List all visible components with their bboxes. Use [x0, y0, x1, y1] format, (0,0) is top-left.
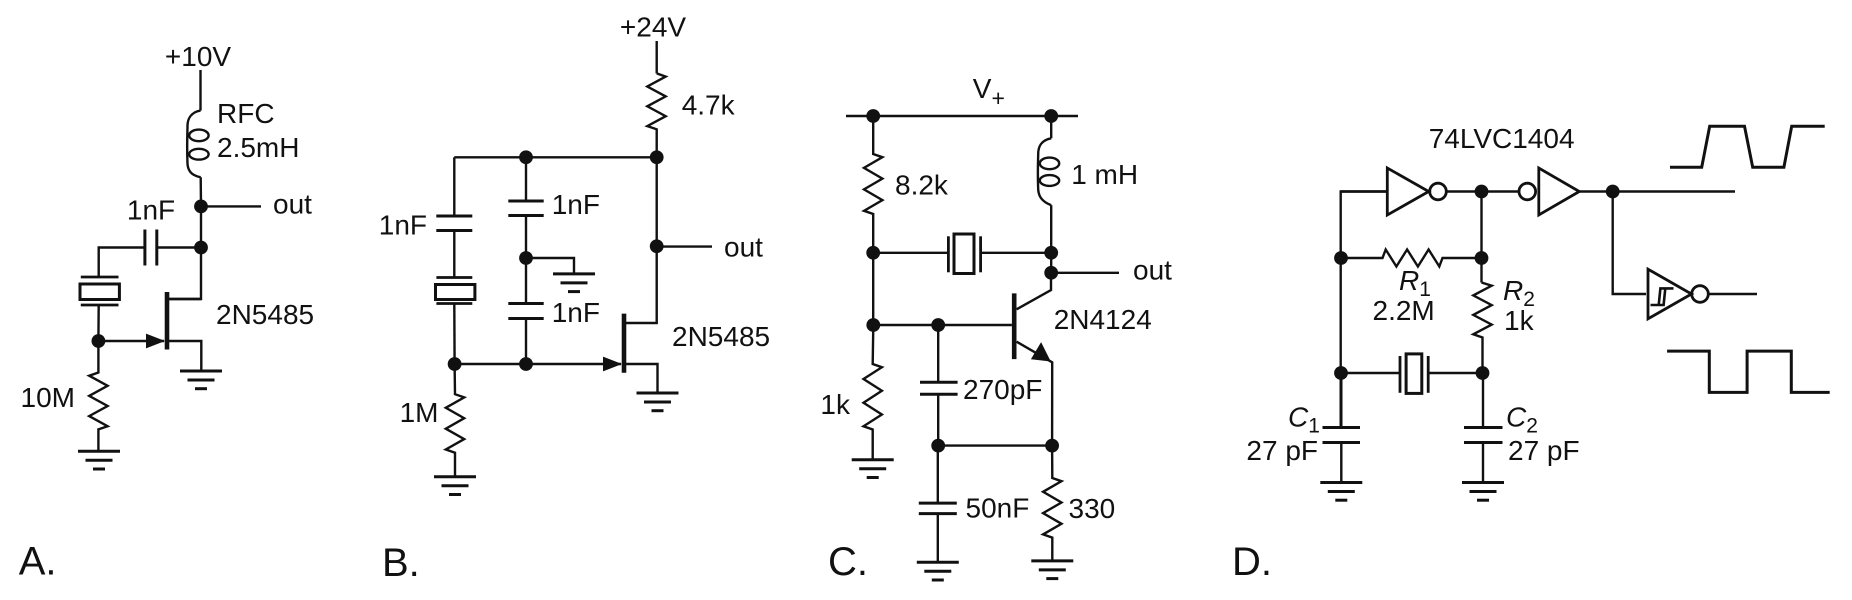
resistor R1 2.2M: [1341, 250, 1482, 267]
crystal X1 (D): [1400, 354, 1428, 394]
svg-text:2N4124: 2N4124: [1054, 304, 1152, 335]
wire base: [873, 324, 1012, 326]
node gate junction (dot): [92, 334, 106, 348]
wire cap to mid node: [525, 216, 527, 259]
gate arrow (B): [603, 357, 622, 372]
svg-text:C.: C.: [828, 540, 868, 584]
node lower-left (dot): [931, 439, 945, 453]
wire out stub: [201, 205, 261, 207]
schmitt inverter U1c triangle: [1648, 269, 1692, 319]
svg-text:2N5485: 2N5485: [672, 321, 770, 352]
wire drain stub: [169, 298, 201, 300]
inverter U1a triangle: [1387, 168, 1428, 215]
svg-text:out: out: [1133, 255, 1172, 286]
ground (B 1M): [434, 477, 476, 495]
node mid gates (dot): [1475, 185, 1489, 199]
wire rail to coil: [1050, 116, 1052, 138]
wire feedback left vertical: [1341, 192, 1388, 428]
wire 270pF to lower node: [937, 394, 939, 445]
wire cap right plate to junction: [157, 246, 201, 248]
wire mid node down to cap2: [525, 258, 527, 304]
ground (C 330): [1031, 561, 1073, 579]
svg-text:A.: A.: [19, 540, 57, 584]
svg-text:27 pF: 27 pF: [1246, 435, 1318, 466]
wire inverter1 input: [1341, 190, 1388, 192]
wire C2 top lead: [1482, 373, 1484, 428]
wire crystal left lead (D): [1341, 372, 1399, 374]
wire junction down to drain corner: [169, 248, 201, 300]
node mid (dot): [519, 251, 533, 265]
gate arrow (A): [146, 334, 165, 349]
svg-text:+10V: +10V: [165, 41, 231, 72]
ground (D C1): [1320, 483, 1362, 501]
node out (C dot): [1044, 266, 1058, 280]
svg-text:8.2k: 8.2k: [895, 170, 949, 201]
wire cap left plate to crystal: [99, 248, 145, 278]
svg-text:1 mH: 1 mH: [1071, 159, 1138, 190]
svg-text:B.: B.: [382, 541, 420, 585]
capacitor 50nF: [919, 503, 957, 513]
capacitor C1 27pF: [1323, 428, 1361, 443]
schmitt hysteresis glyph: [1651, 288, 1674, 305]
wire source stub to ground: [169, 341, 201, 371]
wire mid branch top: [525, 157, 527, 201]
resistor 10M: [89, 341, 107, 451]
wire collector: [1017, 273, 1051, 310]
node R1-right (dot): [1475, 251, 1489, 265]
transistor Q2 2N5485 channel bar: [622, 314, 627, 373]
waveform sine-ish trapezoid (upper): [1670, 126, 1825, 167]
inverter U1b triangle: [1539, 168, 1580, 215]
svg-text:1nF: 1nF: [379, 210, 427, 241]
node crystal-right (D dot): [1476, 366, 1490, 380]
ground (C 1k): [852, 460, 894, 478]
inverter U1b bubble (input): [1519, 183, 1536, 200]
ground (A source): [180, 371, 222, 389]
emitter arrow: [1031, 342, 1051, 361]
node crystal-right (dot): [1044, 246, 1058, 260]
resistor 8.2k: [864, 116, 882, 253]
svg-text:270pF: 270pF: [963, 374, 1042, 405]
wire +10V supply lead: [199, 70, 201, 111]
node lower-right (dot): [1045, 439, 1059, 453]
wire crystal to gate row: [453, 304, 456, 365]
wire 50nF to ground: [937, 514, 939, 563]
crystal X1 (B): [436, 278, 475, 304]
ground (C 50nF): [917, 562, 959, 580]
wire coil to crystal node: [1050, 205, 1052, 253]
wire lower row: [938, 444, 1052, 446]
node out (B dot): [650, 239, 664, 253]
wire cap to crystal (B): [453, 231, 455, 278]
svg-text:RFC: RFC: [217, 98, 275, 129]
node crystal-left (D dot): [1334, 366, 1348, 380]
capacitor C2 27pF: [1464, 428, 1503, 443]
wire out node down to cap junction: [200, 206, 202, 247]
node cap junction (dot): [194, 241, 208, 255]
crystal X1 (C): [948, 234, 980, 274]
wire to 50nF: [937, 446, 939, 504]
wire top rail (B): [454, 156, 656, 158]
svg-text:4.7k: 4.7k: [682, 90, 736, 121]
capacitor 1nF (B mid upper): [508, 201, 543, 216]
schmitt bubble: [1692, 286, 1709, 303]
capacitor 1nF (B mid lower): [508, 304, 543, 319]
node rail-left (dot): [866, 109, 880, 123]
inverter U1a bubble: [1430, 183, 1447, 200]
wire source stub to ground: [626, 364, 658, 393]
capacitor 270pF: [920, 382, 958, 394]
svg-text:1nF: 1nF: [127, 195, 175, 226]
wire C1 to ground: [1340, 443, 1342, 483]
wire inverter2 output: [1579, 190, 1735, 192]
wire mid branch to 270pF: [937, 325, 939, 381]
resistor 1k (C): [864, 325, 882, 460]
svg-text:out: out: [724, 231, 763, 262]
svg-text:1k: 1k: [1504, 305, 1535, 336]
resistor 330: [1043, 446, 1061, 561]
wire crystal to gate node: [97, 305, 100, 341]
ground (B source): [637, 393, 679, 411]
label RFC 2.5mH: [217, 98, 299, 163]
wire emitter: [1017, 342, 1053, 446]
node output (dot): [1606, 185, 1620, 199]
ground (D C2): [1462, 483, 1504, 501]
wire C1 top lead: [1340, 373, 1342, 428]
svg-text:2N5485: 2N5485: [216, 299, 314, 330]
wire left branch down to cap: [453, 157, 455, 216]
ground (B mid): [553, 274, 595, 292]
transistor Q1 2N5485 channel bar: [165, 292, 170, 350]
node rail-right (dot): [1044, 109, 1058, 123]
svg-text:+24V: +24V: [620, 12, 686, 43]
wire cap2 to gate row: [525, 319, 527, 365]
node rail-right (dot): [650, 150, 664, 164]
wire out stub (C): [1051, 272, 1119, 274]
svg-text:10M: 10M: [21, 382, 75, 413]
svg-text:50nF: 50nF: [966, 493, 1030, 524]
node crystal-left (dot): [866, 246, 880, 260]
node base-mid (dot): [931, 318, 945, 332]
waveform square (lower): [1667, 351, 1830, 392]
resistor 4.7k: [647, 73, 665, 157]
svg-text:74LVC1404: 74LVC1404: [1429, 123, 1575, 154]
wire +24V supply lead: [656, 41, 658, 73]
ground (10M): [78, 451, 120, 469]
wire gate: [98, 340, 164, 342]
wire crystal right lead: [982, 252, 1051, 254]
node gate-mid (dot): [519, 357, 533, 371]
svg-text:D.: D.: [1232, 540, 1272, 584]
svg-text:out: out: [273, 189, 312, 220]
inductor RFC 2.5mH coil: [187, 111, 208, 178]
wire schmitt output: [1709, 293, 1758, 295]
svg-text:1nF: 1nF: [552, 189, 600, 220]
node base-left (dot): [866, 318, 880, 332]
wire V+ top rail: [846, 115, 1078, 117]
svg-text:2.2M: 2.2M: [1373, 295, 1435, 326]
wire out stub (B): [657, 245, 712, 247]
wire crystal node to out node: [1050, 253, 1052, 273]
svg-text:330: 330: [1069, 493, 1116, 524]
wire left branch to 1k: [872, 253, 874, 325]
wire crystal left lead: [873, 252, 947, 254]
node rail-mid (dot): [519, 150, 533, 164]
wire coil to out node: [199, 177, 202, 206]
resistor R2 1k: [1473, 283, 1491, 374]
node gate-left (dot): [448, 357, 462, 371]
node out (dot): [194, 200, 208, 214]
wire C2 to ground: [1482, 443, 1484, 483]
capacitor 1nF (A) plates: [145, 230, 157, 266]
inductor 1 mH coil: [1038, 138, 1059, 205]
svg-text:1M: 1M: [400, 397, 439, 428]
capacitor 1nF (B left): [436, 216, 472, 231]
wire gate row: [455, 363, 621, 365]
wire mid node to ground stub: [526, 258, 574, 274]
node R1-left (dot): [1334, 251, 1348, 265]
wire to schmitt input: [1613, 192, 1646, 295]
svg-text:1nF: 1nF: [552, 297, 600, 328]
svg-text:2.5mH: 2.5mH: [217, 132, 299, 163]
svg-text:1k: 1k: [820, 389, 851, 420]
wire drain stub and up to out node: [626, 157, 657, 323]
wire crystal right lead (D): [1429, 372, 1482, 374]
wire bubble1 to bubble2: [1447, 190, 1519, 192]
crystal X1 (A): [80, 277, 119, 305]
transistor Q3 2N4124 bar: [1012, 293, 1017, 359]
wire R2 top lead from gates: [1480, 192, 1482, 283]
svg-text:27 pF: 27 pF: [1508, 435, 1580, 466]
resistor 1M: [446, 364, 464, 477]
